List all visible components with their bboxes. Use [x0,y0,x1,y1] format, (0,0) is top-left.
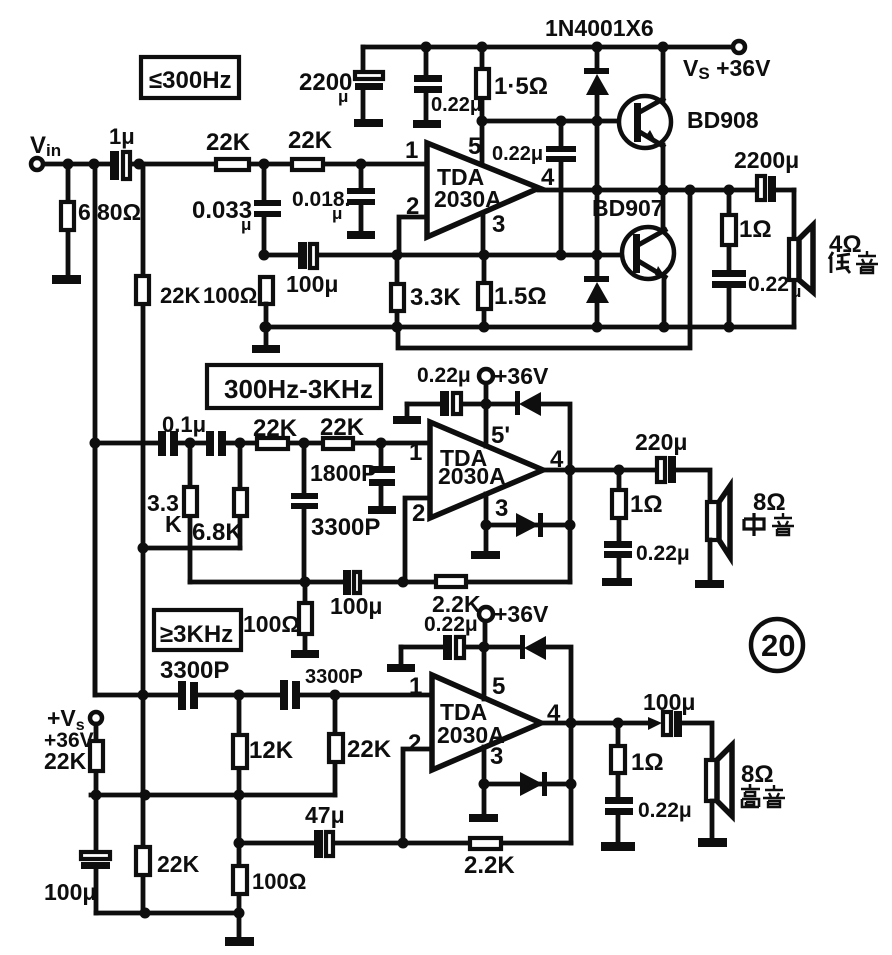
svg-text:100Ω: 100Ω [252,869,306,894]
svg-text:0.22μ: 0.22μ [424,613,478,636]
svg-text:0.22μ: 0.22μ [638,799,692,822]
svg-text:22K: 22K [253,415,298,442]
svg-text:100μ: 100μ [286,271,338,297]
svg-text:3.3K: 3.3K [410,284,461,311]
svg-text:22K: 22K [288,127,333,154]
svg-text:22K: 22K [206,129,251,156]
svg-text:100Ω: 100Ω [243,611,300,637]
svg-text:22K: 22K [347,736,392,763]
svg-text:3: 3 [495,495,508,522]
svg-text:2: 2 [406,193,419,220]
svg-text:8Ω: 8Ω [741,761,774,788]
svg-text:47μ: 47μ [305,802,345,828]
svg-text:1: 1 [405,137,418,164]
svg-text:2: 2 [408,730,421,757]
svg-text:BD908: BD908 [687,107,759,133]
svg-text:1N4001X6: 1N4001X6 [545,15,654,41]
svg-text:1Ω: 1Ω [630,491,663,518]
svg-text:220μ: 220μ [635,429,687,455]
svg-text:1800P: 1800P [310,460,377,486]
svg-text:5: 5 [492,673,505,700]
svg-text:2.2K: 2.2K [464,852,515,879]
svg-text:8Ω: 8Ω [753,489,786,516]
svg-text:100μ: 100μ [330,593,382,619]
svg-text:20: 20 [761,628,795,663]
svg-text:+36V: +36V [494,363,549,389]
svg-text:1.5Ω: 1.5Ω [494,283,547,310]
svg-text:6.8K: 6.8K [192,519,243,546]
svg-text:100Ω: 100Ω [203,283,257,308]
svg-text:0.1μ: 0.1μ [162,412,206,437]
svg-text:6: 6 [78,199,91,225]
svg-text:22K: 22K [320,414,365,441]
svg-text:K: K [165,511,182,537]
svg-text:100μ: 100μ [643,689,695,715]
svg-text:3: 3 [492,211,505,238]
svg-text:1Ω: 1Ω [631,749,664,776]
svg-text:1μ: 1μ [109,124,135,149]
svg-text:3300P: 3300P [311,514,380,541]
svg-text:100μ: 100μ [44,879,96,905]
svg-text:5: 5 [468,133,481,160]
svg-text:μ: μ [241,215,251,234]
svg-text:1·5Ω: 1·5Ω [494,73,548,100]
svg-text:μ: μ [791,282,801,301]
svg-text:1Ω: 1Ω [739,216,772,243]
svg-text:22K: 22K [160,283,200,308]
svg-text:0.22μ: 0.22μ [417,364,471,387]
svg-text:22K: 22K [157,851,200,877]
svg-text:0.22μ: 0.22μ [636,542,690,565]
svg-text:22K: 22K [44,748,87,774]
svg-text:2030A: 2030A [434,186,502,212]
svg-text:0.22μ: 0.22μ [492,143,543,165]
svg-text:+36V: +36V [494,601,549,627]
svg-text:2: 2 [412,500,425,527]
svg-text:μ: μ [332,204,342,223]
svg-text:5': 5' [491,422,510,449]
svg-text:2030A: 2030A [438,463,506,489]
svg-text:μ: μ [338,87,348,106]
svg-text:≥3KHz: ≥3KHz [160,621,233,648]
svg-text:≤300Hz: ≤300Hz [149,67,232,94]
svg-text:4: 4 [541,164,555,191]
svg-text:300Hz-3KHz: 300Hz-3KHz [224,374,373,404]
svg-text:3300P: 3300P [160,657,229,684]
svg-text:2200μ: 2200μ [734,147,799,173]
svg-text:0.22: 0.22 [748,273,789,296]
svg-text:12K: 12K [249,737,294,764]
svg-text:80Ω: 80Ω [97,199,141,225]
svg-text:VS +36V: VS +36V [683,55,771,83]
svg-text:3: 3 [490,743,503,770]
svg-text:BD907: BD907 [592,195,664,221]
svg-text:1: 1 [409,439,422,466]
svg-text:1: 1 [409,673,422,700]
svg-text:3300P: 3300P [305,666,363,688]
